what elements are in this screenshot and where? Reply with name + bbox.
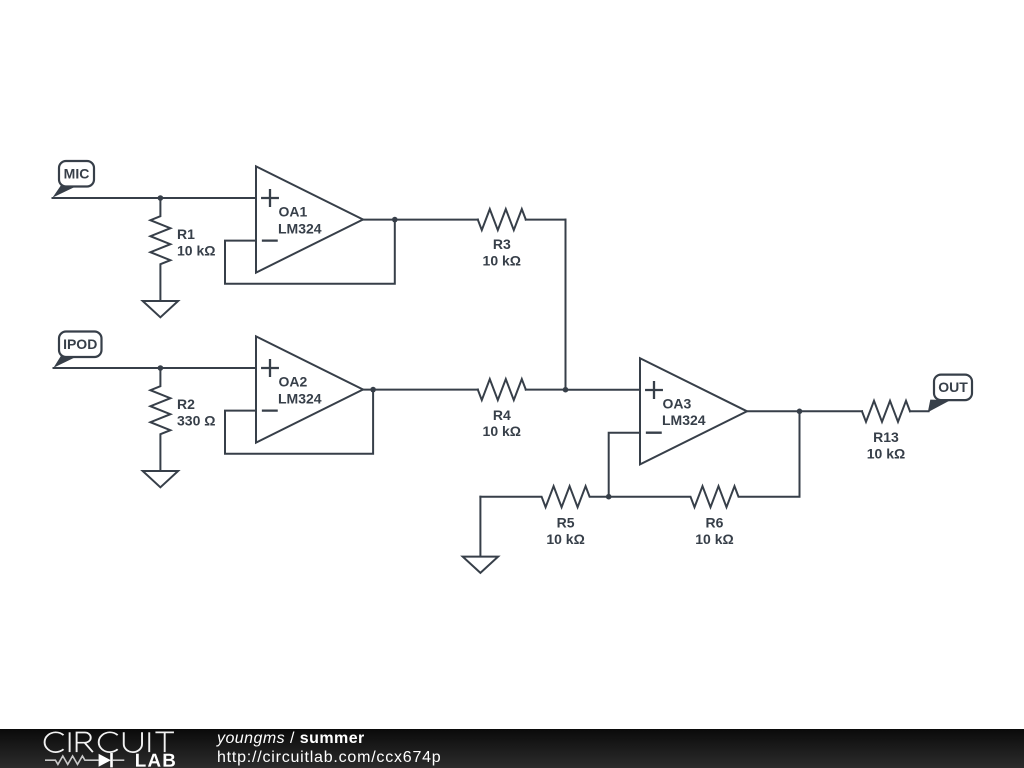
node junction OA3 output (797, 409, 803, 415)
svg-text:LM324: LM324 (278, 390, 322, 406)
wire OA2 feedback loop (225, 390, 373, 454)
resistor R6 (609, 411, 800, 507)
svg-text:R3: R3 (493, 236, 511, 252)
svg-text:OUT: OUT (938, 379, 968, 395)
wire R13 to OUT (910, 410, 929, 412)
resistor R13 (862, 401, 910, 422)
resistor R1 (150, 198, 170, 301)
svg-text:R13: R13 (873, 429, 899, 445)
CircuitLab logo (38, 729, 198, 768)
node junction OA2 output (370, 387, 376, 393)
svg-text:330 Ω: 330 Ω (177, 412, 215, 428)
resistor R4 (478, 379, 526, 400)
svg-text:LM324: LM324 (278, 220, 322, 236)
resistor R5 (480, 486, 608, 507)
svg-text:OA1: OA1 (279, 204, 308, 220)
wire node to OA3 + input (566, 389, 641, 391)
svg-text:LAB: LAB (135, 749, 177, 768)
resistor R3 (478, 209, 526, 230)
wire OA3 output (747, 410, 862, 412)
node junction R5/R6/feedback (606, 494, 612, 500)
svg-text:10 kΩ: 10 kΩ (695, 531, 733, 547)
svg-text:OA3: OA3 (663, 396, 692, 412)
svg-text:LM324: LM324 (662, 412, 706, 428)
node IPOD flag (54, 332, 102, 368)
node junction OA1 output (392, 217, 398, 223)
svg-text:MIC: MIC (64, 166, 90, 182)
wire OA2 output (363, 389, 478, 391)
op-amp OA3 (640, 358, 747, 464)
node OUT flag (928, 375, 972, 413)
svg-text:10 kΩ: 10 kΩ (177, 242, 215, 258)
svg-text:R4: R4 (493, 407, 511, 423)
svg-text:R1: R1 (177, 226, 195, 242)
svg-text:10 kΩ: 10 kΩ (483, 423, 521, 439)
node MIC flag (53, 161, 95, 198)
svg-text:10 kΩ: 10 kΩ (546, 531, 584, 547)
footer bar (0, 729, 1024, 768)
node junction IPOD/R2 (158, 365, 164, 371)
svg-text:R6: R6 (706, 514, 724, 530)
wire R3 to corner (526, 219, 566, 221)
wire OA1 output (363, 219, 478, 221)
ground below R5 (479, 497, 481, 557)
wire MIC to OA1 + input (53, 197, 257, 199)
op-amp OA2 (256, 336, 363, 442)
wire IPOD to OA2 + input (54, 367, 257, 369)
svg-text:R2: R2 (177, 396, 195, 412)
wire OA3 inverting feedback (609, 433, 640, 497)
op-amp OA1 (256, 166, 363, 272)
ground below R2 (143, 471, 178, 487)
wire OA1 feedback loop (225, 220, 395, 284)
svg-text:10 kΩ: 10 kΩ (867, 445, 905, 461)
resistor R2 (150, 368, 170, 471)
wire R4 to node (526, 389, 566, 391)
node junction R3/R4/OA3 (563, 387, 569, 393)
node junction MIC/R1 (158, 195, 164, 201)
svg-text:R5: R5 (557, 514, 575, 530)
svg-text:OA2: OA2 (279, 374, 308, 390)
svg-text:IPOD: IPOD (63, 336, 97, 352)
wire vertical R3 to R4 node (565, 220, 567, 390)
svg-text:10 kΩ: 10 kΩ (483, 252, 521, 268)
ground below R1 (143, 301, 178, 317)
